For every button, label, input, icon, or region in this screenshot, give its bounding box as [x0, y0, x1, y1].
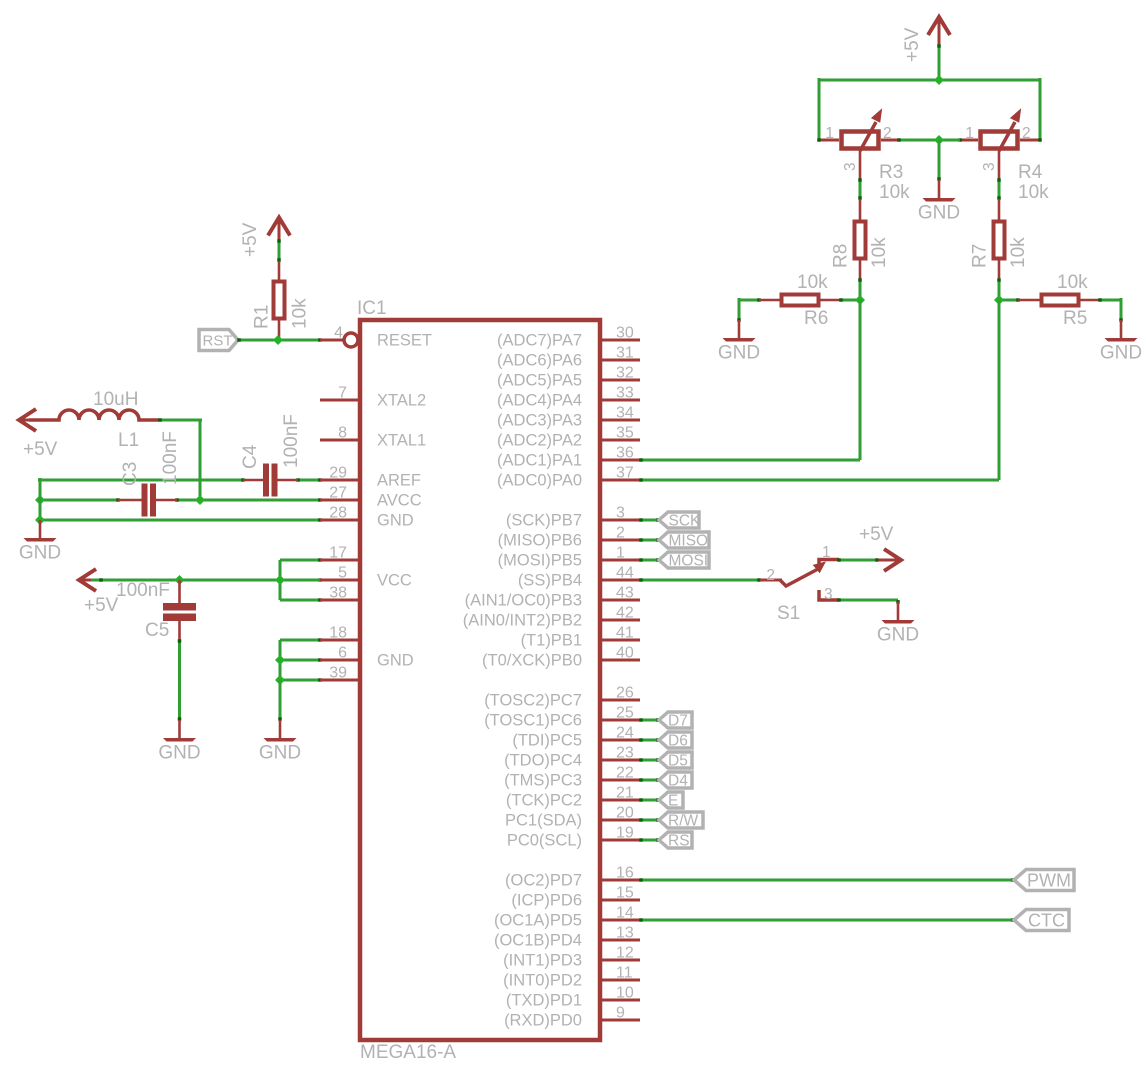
wire horizontal top bus [819, 79, 1040, 82]
svg-text:28: 28 [329, 505, 347, 522]
svg-text:10k: 10k [879, 182, 910, 203]
label +5V below L1 arrow [23, 439, 58, 460]
svg-text:(INT1)PD3: (INT1)PD3 [503, 952, 582, 970]
label 10k of R6 [797, 272, 828, 293]
pin 3 (SCK)PB7 (y=520) [506, 505, 640, 530]
svg-text:R5: R5 [1063, 308, 1087, 329]
wire VCC stub pin5 [280, 579, 320, 582]
svg-text:S1: S1 [777, 603, 800, 624]
flag CTC [1014, 910, 1069, 931]
svg-text:10k: 10k [797, 272, 828, 293]
pin 27 AVCC (y=500) [320, 485, 422, 510]
svg-text:(ADC6)PA6: (ADC6)PA6 [497, 352, 582, 370]
svg-text:43: 43 [616, 585, 634, 602]
svg-text:35: 35 [616, 425, 634, 442]
svg-text:9: 9 [616, 1005, 625, 1022]
svg-text:PC0(SCL): PC0(SCL) [507, 832, 582, 850]
ground below GND pins [259, 720, 301, 764]
svg-text:1: 1 [965, 125, 974, 142]
svg-text:+5V: +5V [902, 27, 923, 62]
pin 20 PC1(SDA) (y=820) [505, 805, 640, 830]
ground below R5 [1100, 320, 1142, 364]
pin 13 (OC1B)PD4 (y=940) [494, 925, 640, 950]
svg-text:(INT0)PD2: (INT0)PD2 [503, 972, 582, 990]
pin 7 XTAL2 (y=400) [320, 385, 426, 410]
pin 22 (TMS)PC3 (y=780) [504, 765, 640, 790]
svg-text:(TMS)PC3: (TMS)PC3 [504, 772, 582, 790]
pin 9 (RXD)PD0 (y=1020) [504, 1005, 640, 1030]
svg-text:38: 38 [329, 585, 347, 602]
svg-text:(ADC3)PA3: (ADC3)PA3 [497, 412, 582, 430]
flag RS [659, 832, 692, 850]
label R1 (vertical) [252, 305, 273, 329]
pin 37 (ADC0)PA0 (y=480) [497, 465, 640, 490]
wire AREF net (pin29 through C4) [38, 478, 322, 482]
svg-text:MISO: MISO [669, 533, 709, 550]
wire PC to D5 flag [639, 758, 660, 762]
label 10k of R7 (vertical) [1008, 237, 1029, 268]
wire junction B to R5 [999, 298, 1020, 302]
label 100nF of C3 (vertical) [160, 431, 181, 485]
wire AVCC net (pin27 through C3) [40, 498, 322, 502]
label +5V (vertical, top right) [902, 27, 923, 62]
junction top bus at x=939 [934, 75, 944, 85]
wire GND bracket down [278, 680, 282, 721]
svg-text:34: 34 [616, 405, 634, 422]
wire R4 wiper to R7 [997, 178, 1001, 200]
svg-text:8: 8 [338, 425, 347, 442]
junction A (R8/R6/ADC1) [855, 295, 865, 305]
svg-text:SCK: SCK [669, 513, 702, 530]
svg-text:(T1)PB1: (T1)PB1 [521, 632, 582, 650]
svg-text:+5V: +5V [240, 222, 261, 257]
pin number 1 of R3 [825, 125, 834, 142]
svg-text:(ADC2)PA2: (ADC2)PA2 [497, 432, 582, 450]
svg-text:AREF: AREF [377, 472, 421, 490]
svg-text:(MOSI)PB5: (MOSI)PB5 [498, 552, 582, 570]
wire +5V to R1 [277, 239, 281, 262]
wire R8 to junction [858, 278, 862, 300]
ground below R6 [718, 320, 760, 364]
wire GND bracket pins 18/6/39 [280, 638, 322, 682]
wire R6 to junction A [839, 298, 860, 302]
flag D7 [659, 712, 692, 730]
pin 21 (TCK)PC2 (y=800) [506, 785, 640, 810]
wire PC to RS flag [639, 838, 660, 842]
wire VCC bracket [280, 558, 322, 602]
svg-text:+5V: +5V [859, 524, 894, 545]
flag SCK [659, 512, 701, 530]
ground left column [19, 520, 61, 564]
junction B (R7/R5/ADC0) [994, 295, 1004, 305]
svg-text:1: 1 [825, 125, 834, 142]
label C4 (vertical) [240, 444, 261, 469]
svg-text:31: 31 [616, 345, 634, 362]
pin number 3 of R4 (vertical) [981, 162, 998, 171]
svg-text:(ICP)PD6: (ICP)PD6 [511, 892, 582, 910]
svg-text:(TOSC1)PC6: (TOSC1)PC6 [484, 712, 582, 730]
pin 14 (OC1A)PD5 (y=920) [494, 905, 640, 930]
svg-text:(ADC1)PA1: (ADC1)PA1 [497, 452, 582, 470]
svg-text:GND: GND [377, 652, 414, 670]
svg-text:44: 44 [616, 565, 634, 582]
pin 18 IC1-left (y=640) [320, 625, 360, 642]
wire GND net pin28 [40, 518, 322, 522]
svg-text:GND: GND [377, 512, 414, 530]
label R7 (vertical) [970, 244, 991, 268]
pin 5 VCC (y=580) [320, 565, 412, 590]
svg-text:(TDO)PC4: (TDO)PC4 [504, 752, 582, 770]
pin 11 (INT0)PD2 (y=980) [503, 965, 640, 990]
svg-text:41: 41 [616, 625, 634, 642]
power +5V arrow (VCC wire) [79, 569, 96, 591]
wire PB to MISO flag [639, 538, 660, 542]
label R6 [804, 308, 828, 329]
resistor R6 10k [759, 295, 841, 306]
wire R3 wiper to R8 [858, 178, 862, 200]
svg-text:MOSI: MOSI [669, 553, 709, 570]
svg-text:6: 6 [338, 645, 347, 662]
junction GND bracket y660 [275, 655, 285, 665]
svg-text:3: 3 [616, 505, 625, 522]
junction C5 top [175, 575, 185, 585]
wire junction down to GND (middle) [937, 140, 941, 181]
svg-text:R3: R3 [879, 162, 903, 183]
resistor R7 10k [994, 199, 1005, 280]
capacitor C4 100nF [243, 464, 298, 497]
flag MISO [659, 532, 709, 550]
svg-text:4: 4 [334, 325, 343, 342]
svg-text:25: 25 [616, 705, 634, 722]
flag E [659, 792, 683, 810]
pin 23 (TDO)PC4 (y=760) [504, 745, 640, 770]
potentiometer R3 10k [817, 110, 899, 180]
wire left column AREF-to-GND [39, 480, 42, 520]
label 10k of R8 (vertical) [869, 237, 890, 268]
svg-text:C4: C4 [240, 444, 261, 469]
svg-text:100nF: 100nF [160, 431, 181, 485]
label MEGA16-A [360, 1042, 456, 1063]
pin 35 (ADC2)PA2 (y=440) [497, 425, 640, 450]
pin 40 (T0/XCK)PB0 (y=660) [482, 645, 640, 670]
label RST text [203, 333, 233, 350]
power +5V arrow (S1) [878, 549, 901, 571]
svg-text:2: 2 [1022, 125, 1031, 142]
label +5V below VCC arrow [84, 595, 119, 616]
label 10k of R5 [1057, 272, 1088, 293]
switch S1 [760, 560, 839, 601]
svg-text:D4: D4 [668, 773, 688, 790]
svg-text:GND: GND [1100, 343, 1142, 364]
svg-text:RESET: RESET [377, 332, 432, 350]
svg-text:1: 1 [616, 545, 625, 562]
svg-text:(OC1A)PD5: (OC1A)PD5 [494, 912, 582, 930]
svg-text:GND: GND [19, 543, 61, 564]
pin 1 (MOSI)PB5 (y=560) [498, 545, 640, 570]
svg-text:GND: GND [918, 203, 960, 224]
wire junction B down to PA0 wire [998, 300, 1001, 480]
svg-text:E: E [668, 793, 678, 810]
ground below C5 [158, 720, 200, 764]
svg-text:(AIN0/INT2)PB2: (AIN0/INT2)PB2 [463, 612, 582, 630]
pin 2 (MISO)PB6 (y=540) [498, 525, 640, 550]
wire PA0 pin37 to R7 branch [639, 478, 999, 482]
wire PB to SCK flag [639, 518, 660, 522]
pin 12 (INT1)PD3 (y=960) [503, 945, 640, 970]
svg-text:VCC: VCC [377, 572, 412, 590]
capacitor C3 100nF [118, 484, 177, 517]
svg-text:(TXD)PD1: (TXD)PD1 [506, 992, 582, 1010]
svg-text:R1: R1 [252, 305, 273, 329]
svg-text:10k: 10k [290, 298, 311, 329]
pin 41 (T1)PB1 (y=640) [521, 625, 640, 650]
power +5V supply arrow (top right) [928, 17, 950, 45]
pin 29 AREF (y=480) [320, 465, 421, 490]
junction wiper bus at x=939 [934, 135, 944, 145]
svg-text:10: 10 [616, 985, 634, 1002]
svg-text:32: 32 [616, 365, 634, 382]
wire PA1 pin36 to R8 branch [639, 458, 860, 462]
svg-text:AVCC: AVCC [377, 492, 422, 510]
svg-text:27: 27 [329, 485, 347, 502]
flag D5 [659, 752, 692, 770]
pin number 2 of R3 [883, 125, 892, 142]
svg-text:10k: 10k [1057, 272, 1088, 293]
svg-text:(TCK)PC2: (TCK)PC2 [506, 792, 582, 810]
svg-text:D5: D5 [668, 753, 688, 770]
pin 42 (AIN0/INT2)PB2 (y=620) [463, 605, 640, 630]
wire R3 pin2 to R4 pin1 [897, 138, 960, 142]
svg-text:(RXD)PD0: (RXD)PD0 [504, 1012, 582, 1030]
wire R7 to junction [997, 278, 1001, 300]
junction GND bracket y680 [275, 675, 285, 685]
svg-text:14: 14 [616, 905, 634, 922]
svg-text:GND: GND [158, 743, 200, 764]
svg-text:1: 1 [822, 544, 831, 561]
svg-text:(SS)PB4: (SS)PB4 [518, 572, 582, 590]
label C3 (vertical) [120, 462, 141, 486]
label +5V (vertical, above R1) [240, 222, 261, 257]
wire R5 to GND [1098, 298, 1123, 322]
svg-text:36: 36 [616, 445, 634, 462]
svg-text:RS: RS [668, 833, 690, 850]
svg-text:100nF: 100nF [281, 414, 302, 468]
wire PC to R/W flag [639, 818, 660, 822]
svg-text:2: 2 [883, 125, 892, 142]
svg-text:XTAL1: XTAL1 [377, 432, 426, 450]
svg-text:CTC: CTC [1028, 911, 1065, 931]
pin 10 (TXD)PD1 (y=1000) [506, 985, 640, 1010]
svg-text:29: 29 [329, 465, 347, 482]
svg-text:GND: GND [877, 625, 919, 646]
junction AVCC/GND-column [35, 495, 45, 505]
pin number 1 of S1 [822, 544, 831, 561]
svg-text:22: 22 [616, 765, 634, 782]
wire GND to R6 [737, 298, 761, 322]
label S1 [777, 603, 800, 624]
svg-text:10k: 10k [869, 237, 890, 268]
label C5 [145, 620, 169, 641]
wire PB to MOSI flag [639, 558, 660, 562]
svg-text:10k: 10k [1018, 182, 1049, 203]
svg-text:RST: RST [203, 333, 233, 350]
svg-text:17: 17 [329, 545, 347, 562]
svg-text:3: 3 [842, 162, 859, 171]
resistor R8 10k [855, 199, 866, 280]
inductor L1 10uH [29, 410, 159, 420]
svg-text:(ADC7)PA7: (ADC7)PA7 [497, 332, 582, 350]
svg-text:30: 30 [616, 325, 634, 342]
svg-text:+5V: +5V [23, 439, 58, 460]
pin number 2 of R4 [1022, 125, 1031, 142]
pin 36 (ADC1)PA1 (y=460) [497, 445, 640, 470]
svg-text:3: 3 [981, 162, 998, 171]
svg-text:13: 13 [616, 925, 634, 942]
svg-text:(OC2)PD7: (OC2)PD7 [505, 872, 582, 890]
flag RST [199, 330, 238, 351]
label 10k of R1 (vertical) [290, 298, 311, 329]
wire PC to E flag [639, 798, 660, 802]
svg-text:PWM: PWM [1027, 871, 1071, 891]
svg-text:(TDI)PC5: (TDI)PC5 [512, 732, 582, 750]
pin number 2 of S1 [766, 567, 775, 584]
wire +5V arrow to bus junction [937, 44, 941, 80]
flag PWM [1014, 870, 1074, 891]
pin 43 (AIN1/OC0)PB3 (y=600) [465, 585, 640, 610]
svg-text:(OC1B)PD4: (OC1B)PD4 [494, 932, 582, 950]
svg-text:100nF: 100nF [116, 580, 170, 601]
pin 6 GND (y=660) [320, 645, 414, 670]
flag D4 [659, 772, 692, 790]
svg-text:R7: R7 [970, 244, 991, 268]
label R4 [1018, 162, 1043, 183]
wire right bus drop to R4 pin2 [1039, 78, 1042, 140]
power +5V arrow (left, L1) [19, 409, 36, 431]
flag R/W [659, 812, 703, 830]
svg-text:37: 37 [616, 465, 634, 482]
wire PC to D6 flag [639, 738, 660, 742]
svg-text:R6: R6 [804, 308, 828, 329]
svg-text:10uH: 10uH [93, 389, 138, 410]
label IC1 [357, 298, 387, 319]
svg-text:21: 21 [616, 785, 634, 802]
svg-text:11: 11 [616, 965, 633, 982]
svg-text:42: 42 [616, 605, 634, 622]
wire PC to D7 flag [639, 718, 660, 722]
svg-text:16: 16 [616, 865, 634, 882]
wire C5 to GND [178, 639, 182, 721]
label R8 (vertical) [831, 244, 852, 268]
label L1 [118, 430, 139, 451]
svg-text:+5V: +5V [84, 595, 119, 616]
wire junction A down to PA1 wire [859, 300, 862, 460]
svg-text:2: 2 [766, 567, 775, 584]
pin 28 GND (y=520) [320, 505, 414, 530]
pin 4 RESET (y=340) [320, 325, 432, 350]
wire S1 pin3 to GND [837, 598, 900, 604]
svg-text:15: 15 [616, 885, 634, 902]
label 10uH [93, 389, 138, 410]
svg-text:(AIN1/OC0)PB3: (AIN1/OC0)PB3 [465, 592, 582, 610]
label R3 [879, 162, 903, 183]
pin 44 (SS)PB4 (y=580) [518, 565, 640, 590]
pin 32 (ADC5)PA5 (y=380) [497, 365, 640, 390]
svg-text:(ADC5)PA5: (ADC5)PA5 [497, 372, 582, 390]
resistor R5 10k [1018, 295, 1100, 306]
svg-text:(SCK)PB7: (SCK)PB7 [506, 512, 582, 530]
svg-text:24: 24 [616, 725, 634, 742]
svg-text:D7: D7 [668, 713, 688, 730]
svg-text:20: 20 [616, 805, 634, 822]
svg-text:XTAL2: XTAL2 [377, 392, 426, 410]
svg-text:C5: C5 [145, 620, 169, 641]
pin 19 PC0(SCL) (y=840) [507, 825, 640, 850]
op IC1 MEGA16-A box [360, 320, 600, 1040]
svg-text:5: 5 [338, 565, 347, 582]
wire PD5 pin14 to CTC flag [639, 918, 1015, 922]
svg-text:10k: 10k [1008, 237, 1029, 268]
pin 33 (ADC4)PA4 (y=400) [497, 385, 640, 410]
svg-text:MEGA16-A: MEGA16-A [360, 1042, 456, 1063]
potentiometer R4 10k [958, 110, 1042, 180]
pin 34 (ADC3)PA3 (y=420) [497, 405, 640, 430]
svg-text:GND: GND [259, 743, 301, 764]
resistor R1 10k [274, 261, 285, 340]
svg-text:3: 3 [824, 586, 833, 603]
label 10k of R4 [1018, 182, 1049, 203]
pin number 3 of S1 [824, 586, 833, 603]
pin number 1 of R4 [965, 125, 974, 142]
pin 24 (TDI)PC5 (y=740) [512, 725, 640, 750]
pin 31 (ADC6)PA6 (y=360) [497, 345, 640, 370]
flag D6 [659, 732, 692, 750]
label R5 [1063, 308, 1087, 329]
junction VCC bracket [275, 575, 285, 585]
svg-text:(ADC0)PA0: (ADC0)PA0 [497, 472, 582, 490]
label +5V above S1 arrow [859, 524, 894, 545]
svg-text:18: 18 [329, 625, 347, 642]
svg-text:39: 39 [329, 665, 347, 682]
wire left bus drop to R3 pin1 [818, 78, 821, 140]
svg-text:IC1: IC1 [357, 298, 387, 319]
ground below S1 [877, 602, 919, 646]
svg-text:R8: R8 [831, 244, 852, 268]
svg-text:26: 26 [616, 685, 634, 702]
wire VCC main [91, 578, 280, 582]
svg-text:D6: D6 [668, 733, 688, 750]
wire PB4 pin44 to switch S1 [639, 578, 761, 582]
svg-text:C3: C3 [120, 462, 141, 486]
wire RST to RESET pin [237, 338, 322, 342]
label 100nF of C5 [116, 580, 170, 601]
pin 25 (TOSC1)PC6 (y=720) [484, 705, 640, 730]
pin 30 (ADC7)PA7 (y=340) [497, 325, 640, 350]
svg-text:7: 7 [338, 385, 347, 402]
flag MOSI [659, 552, 709, 570]
wire L1 to AVCC junction [158, 418, 202, 500]
svg-text:12: 12 [616, 945, 634, 962]
svg-text:(T0/XCK)PB0: (T0/XCK)PB0 [482, 652, 582, 670]
pin number 3 of R3 (vertical) [842, 162, 859, 171]
svg-text:GND: GND [718, 343, 760, 364]
svg-text:23: 23 [616, 745, 634, 762]
pin 17 IC1-left (y=560) [320, 545, 360, 562]
junction AVCC/L1 [195, 495, 205, 505]
label 10k of R3 [879, 182, 910, 203]
wire S1 pin1 to +5V [837, 558, 879, 562]
svg-text:L1: L1 [118, 430, 139, 451]
svg-text:33: 33 [616, 385, 634, 402]
